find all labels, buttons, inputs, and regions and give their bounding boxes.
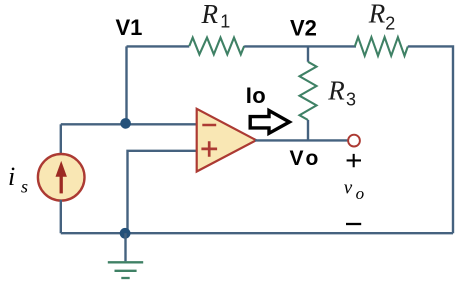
svg-text:Io: Io (246, 83, 266, 108)
svg-text:i: i (8, 162, 15, 191)
output terminal (348, 135, 360, 147)
wire top from V1 corner to R1 (127, 45, 190, 47)
svg-text:Vo: Vo (290, 147, 322, 170)
label V1 (116, 15, 143, 40)
label R3 (327, 75, 356, 109)
wire op-amp output to terminal (255, 139, 348, 141)
wire noninverting input and down to bottom node (128, 151, 197, 233)
wire bottom (61, 232, 453, 234)
label V2 (290, 15, 317, 40)
resistor R1 (189, 38, 244, 55)
wire top from R2 to top-right corner and right side down (408, 46, 453, 233)
label vo (344, 178, 364, 203)
svg-text:1: 1 (220, 12, 230, 32)
svg-text:R: R (201, 0, 219, 29)
svg-text:v: v (344, 178, 353, 199)
label R2 (368, 0, 395, 34)
ground (108, 233, 143, 278)
wire top from R1 to V2/R3 node (244, 45, 356, 47)
op-amp U1 (197, 109, 257, 172)
wire current source down to bottom (60, 200, 62, 233)
svg-text:V2: V2 (290, 15, 317, 40)
wire V1 vertical down to inverting node (125, 46, 127, 124)
svg-text:2: 2 (385, 14, 395, 34)
svg-text:R: R (327, 75, 345, 105)
junction node at inverting input (120, 118, 131, 129)
current source is (38, 154, 85, 201)
label Vo (290, 147, 322, 170)
resistor R3 (300, 46, 317, 140)
label minus (346, 223, 361, 225)
label Io (246, 83, 266, 108)
label plus (347, 154, 361, 167)
label R1 (201, 0, 231, 32)
svg-text:3: 3 (346, 90, 356, 110)
svg-text:s: s (21, 176, 28, 196)
current arrow Io (250, 111, 289, 134)
resistor R2 (355, 37, 408, 56)
svg-text:o: o (356, 184, 365, 203)
wire left down to current source (60, 124, 62, 155)
svg-text:V1: V1 (116, 15, 143, 40)
label is (8, 162, 28, 196)
junction node at bottom (120, 228, 131, 239)
wire inverting input horizontal (61, 123, 197, 125)
svg-text:R: R (368, 0, 386, 29)
